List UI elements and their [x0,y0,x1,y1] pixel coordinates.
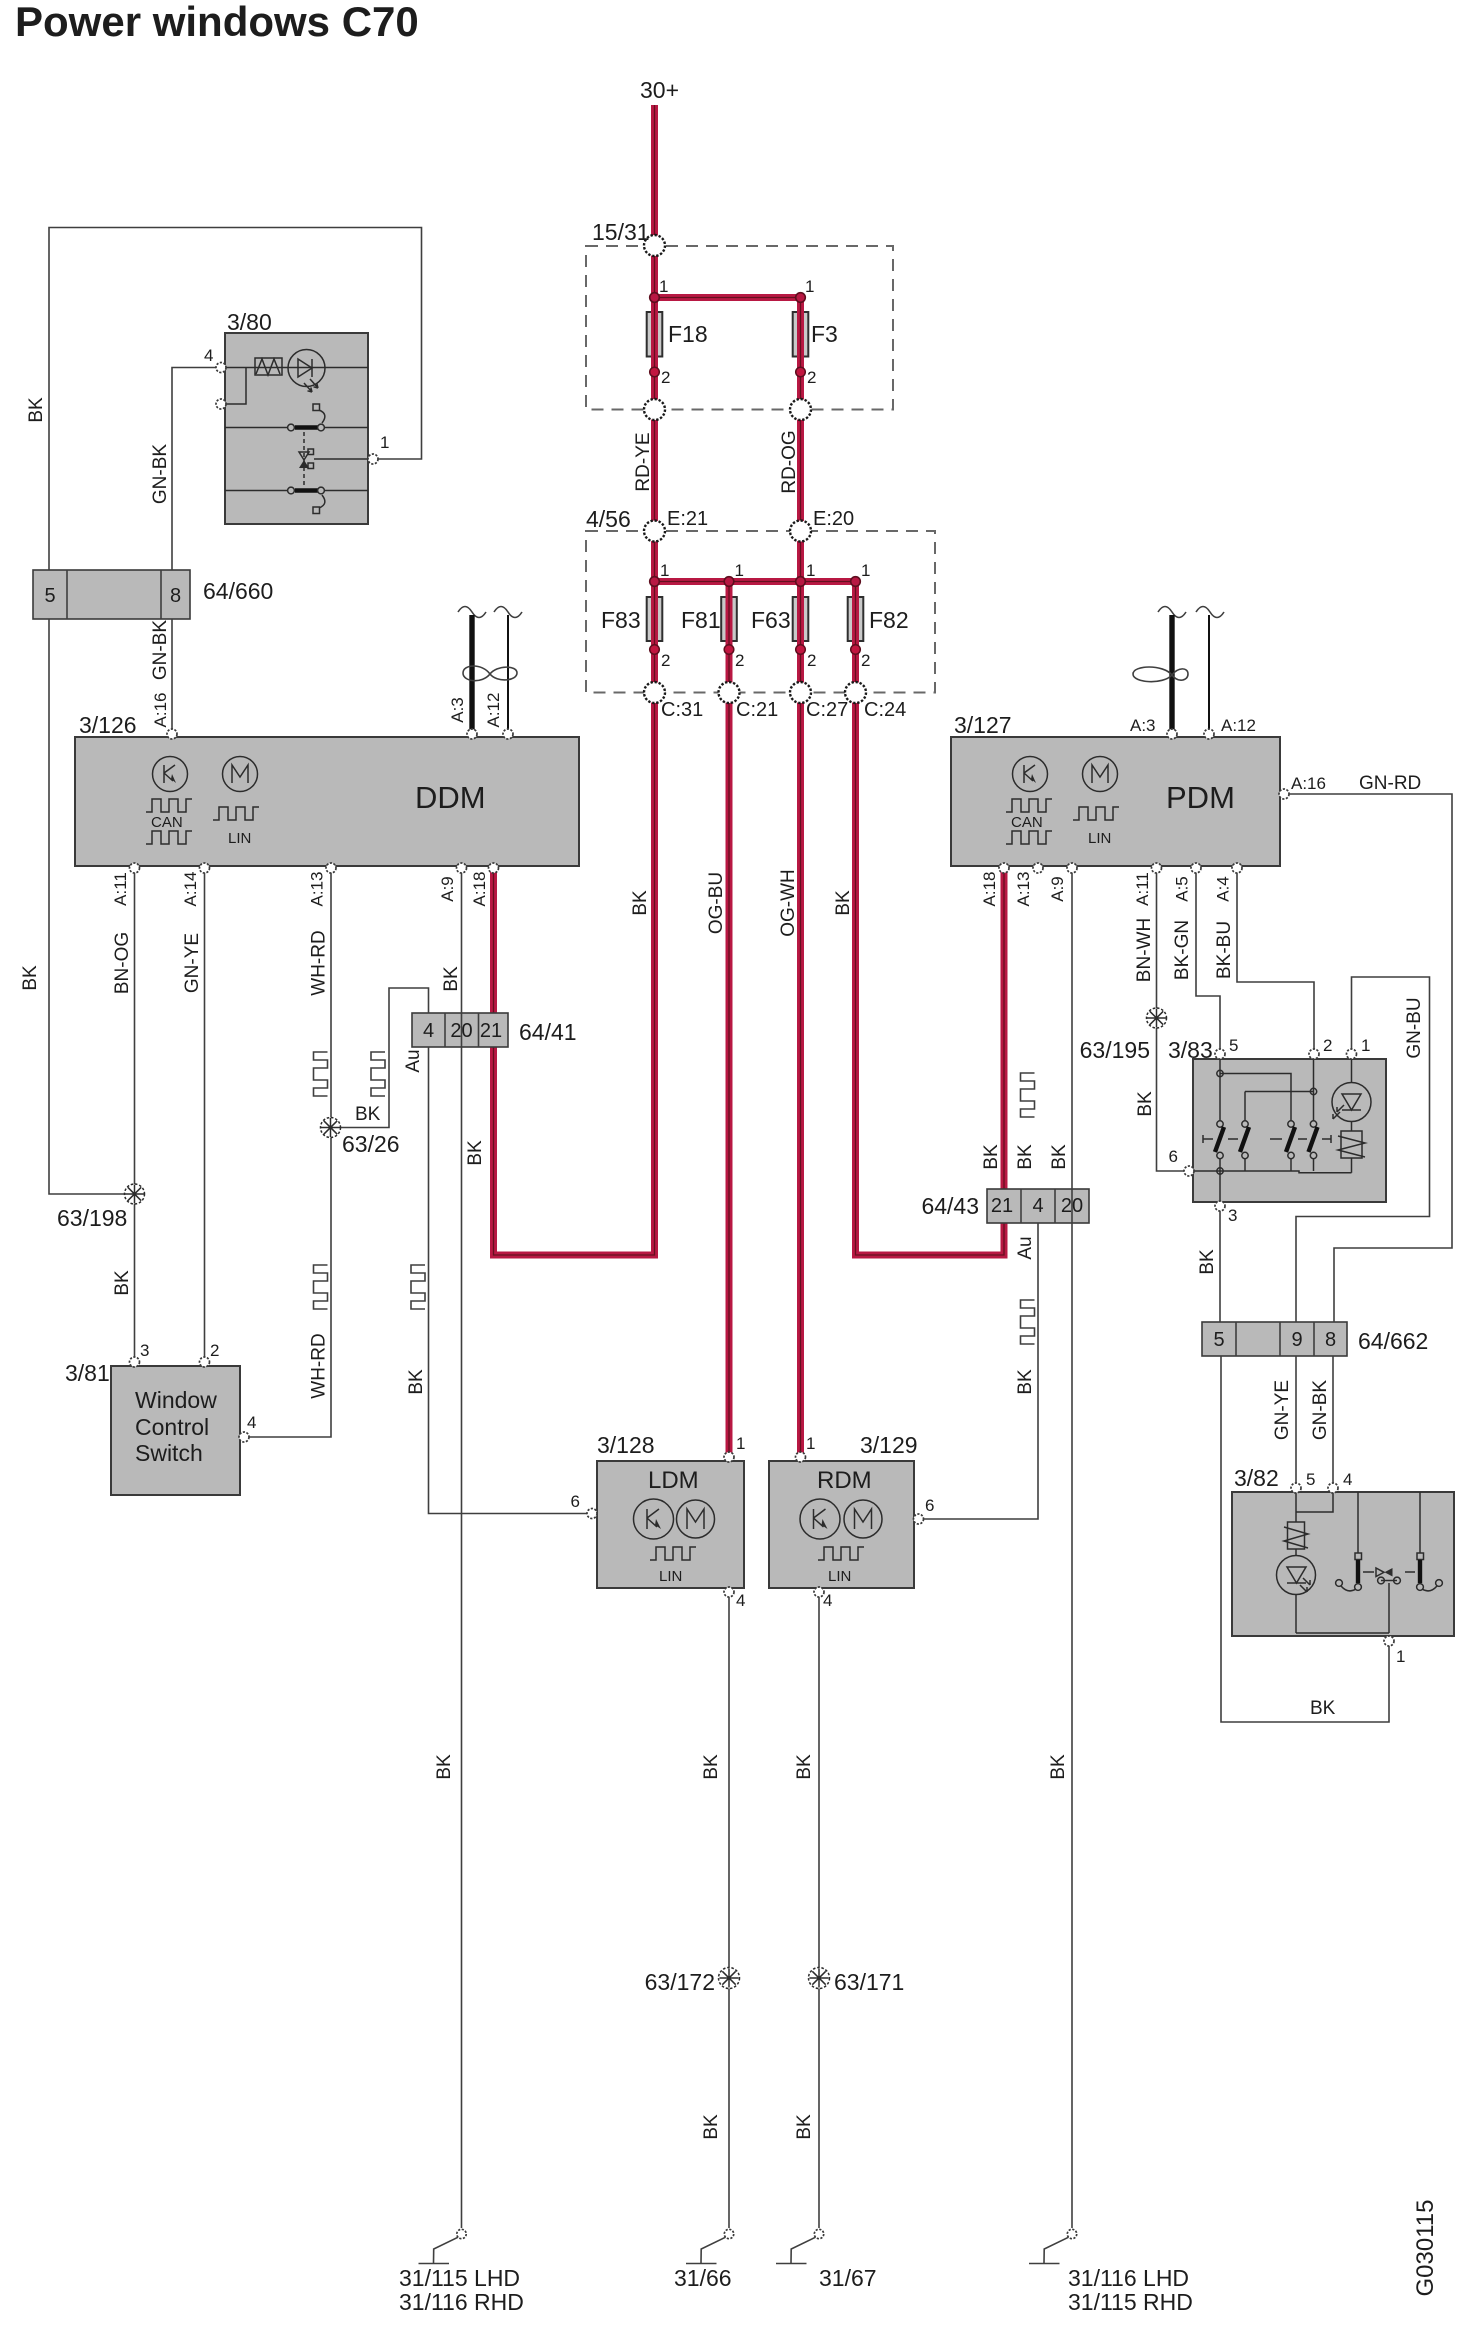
svg-text:A:11: A:11 [111,872,130,906]
wire label WH-RD lower [309,1333,330,1398]
node E:20 [790,521,811,542]
svg-text:A:12: A:12 [484,693,503,728]
svg-text:1: 1 [806,1434,815,1453]
svg-text:GN-RD: GN-RD [1359,773,1421,794]
fuse box 4/56 [586,531,935,693]
wire label BK (A:18 red) [465,1140,486,1166]
module LDM 3/128 [597,1461,744,1588]
svg-text:BK: BK [794,1754,815,1780]
svg-text:OG-WH: OG-WH [778,869,799,937]
node F18 pin 2 [650,367,660,377]
svg-text:DDM: DDM [415,780,486,815]
svg-text:Control: Control [135,1414,209,1440]
svg-text:15/31: 15/31 [592,219,650,245]
svg-text:BK-GN: BK-GN [1172,920,1193,980]
wire label GN-YE right [1272,1380,1293,1440]
svg-text:A:9: A:9 [438,876,457,902]
label E:21 [667,508,708,530]
wire 30+ feed (red) [651,105,658,693]
svg-text:20: 20 [450,1020,472,1042]
svg-text:30+: 30+ [640,77,679,103]
wire BN-OG DDM A:11 to 3/81 pin 3 [134,871,136,1357]
pin DDM A:11 [130,863,140,873]
wire label BK (A:9) [441,966,462,992]
node C:31 [644,682,665,703]
splice 63/171 [809,1968,830,1989]
wire BK 64/660 pin 5 down to splice 63/198 [49,619,125,1194]
svg-text:3/126: 3/126 [79,712,137,738]
svg-text:A:3: A:3 [1130,716,1156,735]
pin DDM A:18 [489,863,499,873]
wire bus 4/56 pin1 (red) [655,582,856,693]
svg-text:A:16: A:16 [151,693,170,728]
splice 63/172 [719,1968,740,1989]
label 63/172 [645,1969,715,1995]
pin labels RDM [806,1434,934,1610]
svg-text:BK: BK [406,1369,427,1395]
svg-text:BN-WH: BN-WH [1134,918,1155,982]
wire label GN-YE left [182,933,203,993]
svg-text:LIN: LIN [659,1568,682,1585]
pin DDM A:9 [457,863,467,873]
svg-text:4: 4 [1343,1470,1352,1489]
node C:24 [845,682,866,703]
svg-text:BK: BK [1197,1249,1218,1275]
wire label BK below 63/198 [112,1270,133,1296]
wire GN-BK 64/660 pin 8 to DDM A:16 [171,619,173,733]
svg-text:A:16: A:16 [1291,774,1326,793]
svg-text:2: 2 [735,651,744,670]
svg-text:2: 2 [861,651,870,670]
wire label BK near 63/26 [355,1104,381,1125]
pin DDM A:16 [167,729,177,739]
svg-text:BN-OG: BN-OG [112,932,133,994]
svg-text:63/198: 63/198 [57,1205,127,1231]
svg-text:1: 1 [380,433,389,452]
svg-text:BK: BK [1310,1698,1336,1719]
pin (lamp return) of 3/80 [216,399,226,409]
pin PDM A:16 [1279,789,1289,799]
label F63 [751,607,791,633]
svg-text:Power windows C70: Power windows C70 [15,0,419,45]
svg-text:64/662: 64/662 [1358,1328,1428,1354]
fuse F3 [793,312,809,357]
label 15/31 [592,219,650,245]
svg-text:BK: BK [981,1144,1002,1170]
svg-text:Au: Au [403,1049,424,1072]
icon labels PDM [1011,814,1111,847]
node 15/31 out RD-OG [790,399,811,420]
svg-text:RD-OG: RD-OG [779,430,800,493]
wire OG-WH C:27 to RDM pin 1 (red) [797,693,804,1454]
wire label Au right [1015,1236,1036,1259]
svg-text:A:5: A:5 [1173,876,1192,902]
svg-text:4: 4 [823,1591,832,1610]
svg-text:F82: F82 [869,607,909,633]
pin 4 of 3/80 [216,363,226,373]
junction F83 pin 1 [650,577,660,587]
svg-text:BK: BK [20,965,41,991]
wire label BK 3/83 pin3 [1197,1249,1218,1275]
pin PDM A:11 [1152,863,1162,873]
pulse symbol Au lower [411,1265,425,1309]
fuse F83 [647,597,663,641]
pin 4 of 3/82 [1328,1483,1338,1493]
wire label Au left [403,1049,424,1072]
svg-text:Au: Au [1015,1236,1036,1259]
wire BK DDM A:9 to ground [461,871,463,2228]
svg-text:A:14: A:14 [181,872,200,907]
svg-text:63/172: 63/172 [645,1969,715,1995]
svg-text:3/127: 3/127 [954,712,1012,738]
wire label OG-WH [778,869,799,937]
svg-text:GN-BK: GN-BK [150,444,171,505]
pin PDM A:18 [999,863,1009,873]
junction F63 pin 1 [796,577,806,587]
svg-text:A:13: A:13 [1014,872,1033,907]
junction F3 pin 1 [796,293,806,303]
svg-text:1: 1 [1361,1036,1370,1055]
svg-text:1: 1 [660,561,669,580]
pin 1 of 3/82 [1384,1636,1394,1646]
svg-text:31/66: 31/66 [674,2265,732,2291]
node 30+ label [640,77,679,103]
svg-text:64/41: 64/41 [519,1019,577,1045]
pin 2 labels 4/56 [661,651,870,670]
svg-text:BK: BK [1015,1144,1036,1170]
svg-text:BK: BK [355,1104,381,1125]
ground label 31/67 [819,2265,877,2291]
svg-text:9: 9 [1291,1329,1302,1351]
svg-text:BK: BK [701,2114,722,2140]
ground label 31/115 LHD 31/116 RHD [399,2265,524,2315]
pin DDM A:14 [200,863,210,873]
svg-text:63/195: 63/195 [1080,1037,1150,1063]
svg-text:4: 4 [736,1591,745,1610]
svg-text:3: 3 [1228,1206,1237,1225]
svg-text:G030115: G030115 [1412,2200,1439,2297]
label 3/80 [227,309,272,335]
module RDM 3/129 [769,1461,914,1588]
twisted pair break DDM A:3 [458,607,486,618]
module name PDM [1166,780,1235,815]
svg-text:8: 8 [1325,1329,1336,1351]
junction F81 pin 1 [724,577,734,587]
pin labels 3/81 [140,1341,256,1432]
svg-text:2: 2 [210,1341,219,1360]
junction F82 pin 1 [851,577,861,587]
wire GN-YE DDM A:14 to 3/81 pin 2 [204,871,206,1357]
node F82 pin 2 [851,645,861,655]
port labels C row [661,699,906,721]
pin 1 of 3/80 [368,454,378,464]
svg-text:E:20: E:20 [813,508,854,530]
twisted pair break DDM A:12 [494,607,522,618]
wire OG-BU C:21 to LDM pin 1 (red) [726,693,733,1454]
junction F18 pin 1 [650,293,660,303]
wire BK LDM pin 4 to ground 31/66 [728,1597,730,2228]
svg-text:1: 1 [806,561,815,580]
wire label BK on Au line [406,1369,427,1395]
title [15,0,419,45]
svg-text:6: 6 [571,1492,580,1511]
switch 3/80 [221,333,368,524]
wire label GN-BK right [1310,1380,1331,1441]
wire labels BK above 64/43 [981,1144,1070,1170]
svg-text:1: 1 [805,277,814,296]
svg-text:LIN: LIN [828,1568,851,1585]
svg-text:63/26: 63/26 [342,1131,400,1157]
pulse symbol Au right lower [1021,1300,1035,1344]
label 3/129 [860,1432,918,1458]
svg-text:4: 4 [1032,1195,1043,1217]
svg-text:BK: BK [465,1140,486,1166]
wire label GN-BK to A:16 [150,620,171,681]
twisted pair PDM A:3 thick [1169,615,1174,734]
svg-text:A:11: A:11 [1133,872,1152,906]
label E:20 [813,508,854,530]
svg-text:F18: F18 [668,321,708,347]
wire label GN-BU [1404,997,1425,1058]
svg-text:BK: BK [701,1754,722,1780]
label F83 [601,607,641,633]
node F63 pin 2 [796,645,806,655]
svg-text:Switch: Switch [135,1440,203,1466]
svg-text:8: 8 [170,585,181,607]
svg-text:4/56: 4/56 [586,506,631,532]
twisted pair break PDM A:12 [1196,607,1224,618]
pin PDM A:5 [1191,863,1201,873]
pin 3 of 3/83 [1215,1201,1225,1211]
wire WH-RD DDM A:13 to 3/81 pin 4 [249,871,331,1437]
svg-text:BK: BK [833,890,854,916]
svg-text:OG-BU: OG-BU [706,872,727,934]
label 3/81 [65,1360,110,1386]
svg-text:CAN: CAN [1011,814,1043,831]
node 15/31 [644,235,665,256]
wire label BK on Au right [1015,1369,1036,1395]
svg-text:6: 6 [1169,1147,1178,1166]
icon labels DDM [151,814,251,847]
pulse symbol 64/41 branch [371,1052,385,1096]
svg-text:LDM: LDM [648,1467,699,1494]
ground 31/66 [686,2229,734,2263]
pin DDM A:12 [503,729,513,739]
label 64/662 [1358,1328,1428,1354]
wire bus 15/31 pin1 (red) [655,298,801,693]
label F3 [811,321,838,347]
wire BK 3/82 pin 1 to 64/662 pin 5 [1221,1356,1389,1722]
label F82 [869,607,909,633]
svg-text:2: 2 [661,368,670,387]
pin labels 3/83 [1169,1036,1371,1225]
label 3/128 [597,1432,655,1458]
fuse F18 [647,312,663,357]
svg-text:1: 1 [736,1434,745,1453]
twist symbol DDM [463,666,517,681]
pin 4 of RDM [814,1587,824,1597]
module DDM 3/126 [75,737,579,866]
svg-text:3/82: 3/82 [1234,1465,1279,1491]
cell labels 64/43 [991,1195,1083,1217]
switch 3/81 Window Control Switch [111,1366,240,1495]
svg-text:GN-BK: GN-BK [150,620,171,681]
wire label GN-BK left [150,444,171,505]
pin labels 3/82 [1306,1470,1405,1666]
pin 1 of 3/83 [1347,1049,1357,1059]
svg-text:31/116 LHD: 31/116 LHD [1068,2265,1189,2291]
wire labels BK ground runs upper [434,1754,1069,1780]
pin PDM A:9 [1067,863,1077,873]
svg-text:BK-BU: BK-BU [1214,921,1235,979]
ground label 31/116 LHD 31/115 RHD [1068,2265,1193,2315]
doc number G030115 [1412,2200,1439,2297]
label 3/83 [1168,1037,1213,1063]
svg-text:WH-RD: WH-RD [309,1333,330,1398]
svg-text:64/43: 64/43 [921,1193,979,1219]
pin 6 of 3/83 [1184,1166,1194,1176]
svg-text:3/81: 3/81 [65,1360,110,1386]
wire label RD-YE [633,432,654,491]
svg-text:5: 5 [1306,1470,1315,1489]
svg-text:F83: F83 [601,607,641,633]
wire label BK below 64/660 [20,965,41,991]
label 64/41 [519,1019,577,1045]
svg-text:31/116 RHD: 31/116 RHD [399,2289,524,2315]
splice 63/195 [1147,1008,1167,1028]
pin 2 of 3/81 [200,1357,210,1367]
svg-text:4: 4 [423,1020,434,1042]
svg-text:F3: F3 [811,321,838,347]
wire 3/80 pin 1 stub [368,458,378,460]
label F18 [668,321,708,347]
wire label BK-GN [1172,920,1193,980]
svg-text:BK: BK [26,397,47,423]
label 63/171 [834,1969,904,1995]
svg-text:A:18: A:18 [980,872,999,907]
svg-text:1: 1 [659,277,668,296]
svg-text:BK: BK [794,2114,815,2140]
pin PDM A:4 [1232,863,1242,873]
svg-text:2: 2 [807,368,816,387]
wire BK splice 63/26 to 64/41 pin 4 [340,988,429,1128]
pin DDM A:3 [467,729,477,739]
pin 1 labels 4/56 [660,561,870,580]
svg-text:BK: BK [1049,1144,1070,1170]
svg-text:F81: F81 [681,607,721,633]
wire GN-BU 3/83 pin 1 to 64/662 pin 9 [1296,977,1430,1322]
svg-text:6: 6 [925,1496,934,1515]
cell labels 64/660 [44,585,181,607]
wire GN-BK 64/662 pin 8 to 3/82 pin 4 [1332,1356,1334,1484]
label 64/660 [203,578,273,604]
twisted pair DDM A:12 [507,615,509,734]
pin 4 label 3/80 [204,346,213,365]
label 63/195 [1080,1037,1150,1063]
wire BK C:24 to PDM A:18 (red) [856,693,1005,1256]
svg-text:GN-YE: GN-YE [182,933,203,993]
svg-text:1: 1 [735,561,744,580]
svg-text:21: 21 [991,1195,1013,1217]
svg-text:4: 4 [247,1413,256,1432]
svg-text:BK: BK [1048,1754,1069,1780]
wire label BN-WH [1134,918,1155,982]
svg-text:1: 1 [861,561,870,580]
svg-text:LIN: LIN [228,830,251,847]
pin 6 of LDM [587,1509,597,1519]
label 64/43 [921,1193,979,1219]
svg-text:A:18: A:18 [470,872,489,907]
twisted pair break PDM A:3 [1158,607,1186,618]
switch 3/83 [1189,1059,1386,1202]
pin labels F18/F3 [659,277,816,387]
svg-text:BK: BK [441,966,462,992]
wire labels BK ground runs lower [701,2114,815,2140]
wire BK PDM A:9 to ground [1071,871,1073,2228]
splice 63/198 [125,1184,145,1204]
svg-text:1: 1 [1396,1647,1405,1666]
svg-text:5: 5 [1213,1329,1224,1351]
pin PDM A:12 [1204,729,1214,739]
svg-text:C:21: C:21 [736,699,778,721]
svg-text:2: 2 [661,651,670,670]
svg-text:E:21: E:21 [667,508,708,530]
svg-text:20: 20 [1061,1195,1083,1217]
label F81 [681,607,721,633]
pin 5 of 3/82 [1291,1483,1301,1493]
ground label 31/66 [674,2265,732,2291]
pulse symbol PDM A:13 upper [1021,1073,1035,1117]
svg-text:GN-BU: GN-BU [1404,997,1425,1058]
svg-text:BK: BK [1135,1091,1156,1117]
wire GN-BK 3/80 pin 4 to 64/660 pin 8 [172,368,216,571]
svg-text:3/129: 3/129 [860,1432,918,1458]
twist symbol PDM [1133,667,1188,682]
svg-text:A:4: A:4 [1214,876,1233,902]
label 3/82 [1234,1465,1279,1491]
node 15/31 out RD-YE [644,399,665,420]
svg-text:F63: F63 [751,607,791,633]
pin 4 of LDM [724,1587,734,1597]
svg-text:A:9: A:9 [1048,876,1067,902]
svg-text:31/115 LHD: 31/115 LHD [399,2265,520,2291]
svg-text:2: 2 [1323,1036,1332,1055]
svg-text:CAN: CAN [151,814,183,831]
svg-text:31/115 RHD: 31/115 RHD [1068,2289,1193,2315]
wire BK 3/83 pin 3 to 64/662 pin 5 [1219,1211,1221,1322]
twisted pair PDM A:12 [1208,615,1210,734]
svg-text:2: 2 [807,651,816,670]
svg-text:3/80: 3/80 [227,309,272,335]
svg-text:A:3: A:3 [448,697,467,723]
wire label BK left [26,397,47,423]
pin 4 of 3/81 [239,1432,249,1442]
wire label BK below 63/195 [1135,1091,1156,1117]
wire GN-YE 64/662 pin 9 to 3/82 pin 5 [1295,1356,1297,1484]
wire label BK (C:31 branch) [630,890,651,916]
wire Au 64/41 pin 4 to LDM pin 6 [429,1047,588,1514]
node C:27 [790,682,811,703]
wire BK loop from 64/660 pin 5 to 3/80 pin 1 [49,228,422,571]
node F3 pin 2 [796,367,806,377]
svg-text:BK: BK [630,890,651,916]
wire BK-BU PDM A:4 to 3/83 pin 2 [1237,871,1314,1049]
switch 3/82 [1232,1492,1454,1636]
wire label BK-BU [1214,921,1235,979]
pin labels PDM A:3 A:12 [1130,716,1256,735]
wire label OG-BU [706,872,727,934]
pin labels DDM bottom [111,872,489,907]
